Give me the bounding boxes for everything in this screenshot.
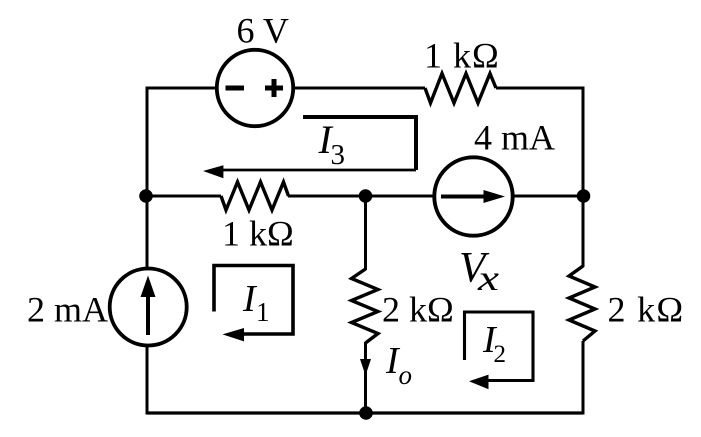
- label "I1": [242, 278, 270, 327]
- label "I3": [318, 117, 346, 171]
- resistor 2 kΩ (middle vertical): [352, 269, 379, 343]
- svg-text:x: x: [477, 258, 499, 298]
- minus sign of 6 V source: [226, 86, 245, 91]
- resistor 1 kΩ (top): [425, 74, 496, 104]
- svg-text:2 kΩ: 2 kΩ: [382, 290, 454, 330]
- svg-text:4 mA: 4 mA: [474, 118, 555, 158]
- resistor 2 kΩ (right vertical): [569, 266, 595, 341]
- mesh current I2 loop arrow: [465, 312, 534, 389]
- wire left vertical upper: [146, 87, 149, 269]
- wire right vertical lower: [582, 341, 585, 415]
- label "I2": [482, 319, 506, 368]
- arrow Io (output current): [360, 359, 371, 376]
- plus sign of 6 V source: [265, 79, 283, 97]
- wire top-left segment: [146, 87, 216, 90]
- node (junction dot, center middle): [359, 189, 373, 203]
- svg-text:3: 3: [331, 139, 346, 171]
- wire middle vertical upper: [364, 196, 367, 270]
- wire top-right segment: [496, 87, 585, 90]
- wire middle horizontal center: [288, 195, 433, 198]
- svg-text:o: o: [399, 360, 413, 390]
- resistor 1 kΩ (middle): [221, 182, 289, 210]
- node (junction dot, left middle): [139, 189, 153, 203]
- wire middle horizontal left: [147, 195, 221, 198]
- voltage source 6 V: [217, 50, 293, 126]
- label "Vx" (voltage across 4 mA source): [459, 245, 499, 299]
- node (junction dot, bottom middle): [359, 406, 373, 420]
- svg-text:1 kΩ: 1 kΩ: [424, 36, 500, 76]
- svg-text:1: 1: [256, 297, 270, 327]
- svg-text:1 kΩ: 1 kΩ: [222, 214, 294, 254]
- label "Io": [385, 340, 412, 390]
- svg-text:6 V: 6 V: [237, 11, 289, 51]
- current source 2 mA: [110, 269, 187, 346]
- wire middle horizontal right: [514, 195, 583, 198]
- svg-text:2: 2: [494, 341, 507, 368]
- wire top-middle segment: [294, 87, 425, 90]
- mesh current I3 loop arrow: [203, 117, 416, 178]
- svg-text:2 kΩ: 2 kΩ: [608, 290, 685, 330]
- wire right vertical upper: [582, 87, 585, 268]
- wire left vertical lower: [146, 346, 149, 415]
- node (junction dot, right middle): [577, 189, 591, 203]
- svg-text:2 mA: 2 mA: [27, 290, 108, 330]
- wire bottom: [147, 411, 583, 414]
- mesh current I1 loop arrow: [214, 266, 293, 342]
- wire middle vertical lower: [364, 342, 367, 414]
- current source 4 mA: [434, 157, 512, 235]
